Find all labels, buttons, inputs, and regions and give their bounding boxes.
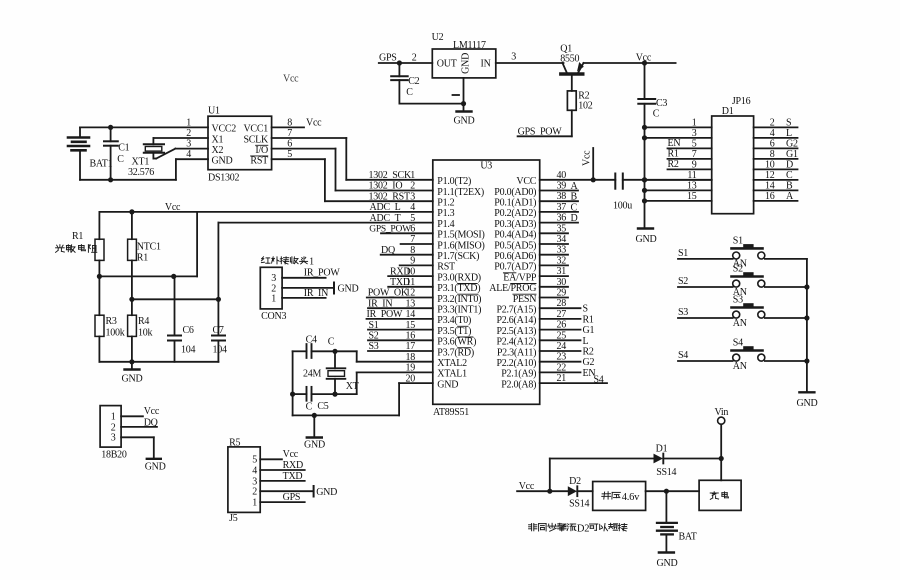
svg-text:VCC: VCC <box>516 176 536 187</box>
svg-text:C: C <box>571 202 578 213</box>
svg-text:P0.1(AD1): P0.1(AD1) <box>494 198 536 209</box>
svg-text:Vcc: Vcc <box>582 150 593 166</box>
svg-text:S3: S3 <box>369 341 379 352</box>
svg-text:C2: C2 <box>408 76 419 87</box>
svg-text:D: D <box>571 213 578 224</box>
svg-text:10: 10 <box>765 159 775 170</box>
svg-text:6: 6 <box>770 138 775 149</box>
svg-text:4: 4 <box>770 128 775 139</box>
svg-text:GND: GND <box>304 440 325 451</box>
svg-text:P2.7(A15): P2.7(A15) <box>496 305 536 316</box>
svg-text:TXD: TXD <box>283 471 303 482</box>
svg-text:SCLK: SCLK <box>243 134 269 145</box>
svg-text:GND: GND <box>145 462 166 473</box>
svg-text:ALE/PROG: ALE/PROG <box>489 283 536 294</box>
svg-text:1: 1 <box>111 412 116 423</box>
svg-text:1: 1 <box>186 117 191 128</box>
svg-text:U2: U2 <box>432 32 444 43</box>
svg-text:LM1117: LM1117 <box>453 40 486 51</box>
svg-text:P1.5(MOSI): P1.5(MOSI) <box>437 230 484 241</box>
svg-text:X1: X1 <box>212 134 224 145</box>
svg-text:3: 3 <box>692 128 697 139</box>
svg-text:S1: S1 <box>678 248 688 259</box>
svg-text:8: 8 <box>770 149 775 160</box>
svg-text:P1.3: P1.3 <box>437 208 454 219</box>
svg-text:R1: R1 <box>583 314 594 325</box>
svg-text:3: 3 <box>186 139 191 150</box>
svg-text:R1: R1 <box>668 149 679 160</box>
svg-text:1: 1 <box>692 117 697 128</box>
svg-text:P2.4(A12): P2.4(A12) <box>496 337 536 348</box>
svg-text:4: 4 <box>186 149 191 160</box>
svg-text:P3.4(T0): P3.4(T0) <box>437 315 471 326</box>
svg-text:D2: D2 <box>577 524 589 535</box>
svg-text:P2.6(A14): P2.6(A14) <box>496 315 536 326</box>
svg-text:P2.1(A9): P2.1(A9) <box>501 369 536 380</box>
svg-text:B: B <box>571 192 578 203</box>
svg-text:RST: RST <box>437 262 455 273</box>
svg-text:P3.3(INT1): P3.3(INT1) <box>437 305 481 316</box>
svg-text:BAT: BAT <box>679 532 697 543</box>
svg-text:5: 5 <box>692 138 697 149</box>
svg-text:15: 15 <box>687 191 697 202</box>
svg-text:2: 2 <box>111 422 116 433</box>
svg-text:GPS: GPS <box>283 492 301 503</box>
svg-text:Vcc: Vcc <box>165 202 181 213</box>
svg-text:XTAL2: XTAL2 <box>437 358 467 369</box>
svg-text:JP16: JP16 <box>732 96 751 107</box>
svg-text:NTC1: NTC1 <box>137 242 161 253</box>
svg-text:GND: GND <box>122 374 143 385</box>
svg-text:R3: R3 <box>106 316 117 327</box>
svg-text:3: 3 <box>111 433 116 444</box>
svg-text:P0.0(AD0): P0.0(AD0) <box>494 187 536 198</box>
svg-text:100u: 100u <box>613 201 632 212</box>
svg-text:S3: S3 <box>678 307 688 318</box>
svg-text:AT89S51: AT89S51 <box>433 407 469 418</box>
svg-text:B: B <box>786 180 793 191</box>
svg-text:P2.2(A10): P2.2(A10) <box>496 358 536 369</box>
svg-text:S: S <box>786 117 791 128</box>
svg-text:POW_OK: POW_OK <box>368 288 409 299</box>
svg-text:16: 16 <box>765 191 775 202</box>
svg-text:C: C <box>786 170 793 181</box>
svg-text:U3: U3 <box>480 161 492 172</box>
svg-text:C: C <box>328 337 335 348</box>
svg-text:P0.4(AD4): P0.4(AD4) <box>494 230 536 241</box>
svg-text:DS1302: DS1302 <box>208 173 240 184</box>
svg-text:5: 5 <box>252 455 257 466</box>
svg-text:P3.7(RD): P3.7(RD) <box>437 347 474 358</box>
svg-text:24M: 24M <box>303 369 322 380</box>
svg-text:GND: GND <box>797 398 818 409</box>
svg-text:C: C <box>306 402 313 413</box>
svg-text:Vcc: Vcc <box>283 74 299 85</box>
svg-text:AN: AN <box>733 318 747 329</box>
svg-text:P2.5(A13): P2.5(A13) <box>496 326 536 337</box>
svg-text:GND: GND <box>338 284 359 295</box>
svg-text:D1: D1 <box>722 106 734 117</box>
svg-text:RST: RST <box>250 156 268 167</box>
svg-text:G1: G1 <box>583 325 595 336</box>
svg-text:102: 102 <box>578 100 593 111</box>
svg-text:D2: D2 <box>569 476 581 487</box>
svg-text:S4: S4 <box>733 338 743 349</box>
svg-text:32.576: 32.576 <box>128 167 154 178</box>
svg-text:C4: C4 <box>306 335 317 346</box>
svg-text:100k: 100k <box>106 328 125 339</box>
svg-text:P2.0(A8): P2.0(A8) <box>501 379 536 390</box>
svg-text:X2: X2 <box>212 145 224 156</box>
svg-text:S1: S1 <box>733 236 743 247</box>
svg-text:C3: C3 <box>656 98 667 109</box>
svg-text:P1.1(T2EX): P1.1(T2EX) <box>437 187 484 198</box>
svg-text:Vcc: Vcc <box>283 449 299 460</box>
svg-text:18B20: 18B20 <box>101 450 127 461</box>
svg-text:104: 104 <box>181 345 196 356</box>
svg-text:XTAL1: XTAL1 <box>437 369 467 380</box>
svg-text:RXD: RXD <box>390 266 410 277</box>
svg-text:P3.1(TXD): P3.1(TXD) <box>437 283 480 294</box>
svg-text:Vcc: Vcc <box>636 53 652 64</box>
svg-text:IN: IN <box>481 59 491 70</box>
svg-text:GND: GND <box>657 558 678 569</box>
svg-text:S: S <box>583 304 588 315</box>
svg-text:P1.2: P1.2 <box>437 198 454 209</box>
svg-text:G2: G2 <box>583 357 595 368</box>
svg-text:L: L <box>786 128 792 139</box>
svg-text:C: C <box>117 154 124 165</box>
svg-text:R4: R4 <box>138 316 149 327</box>
svg-text:S1: S1 <box>369 320 379 331</box>
svg-text:1: 1 <box>271 293 276 304</box>
svg-text:P0.5(AD5): P0.5(AD5) <box>494 240 536 251</box>
svg-text:14: 14 <box>765 180 775 191</box>
svg-text:J5: J5 <box>229 513 238 524</box>
svg-text:P3.0(RXD): P3.0(RXD) <box>437 272 481 283</box>
svg-text:R2: R2 <box>668 159 679 170</box>
svg-text:S2: S2 <box>678 276 688 287</box>
svg-text:R1: R1 <box>72 231 83 242</box>
svg-text:GND: GND <box>454 116 475 127</box>
svg-text:I/O: I/O <box>255 145 268 156</box>
svg-text:RXD: RXD <box>283 460 303 471</box>
svg-text:S4: S4 <box>678 350 688 361</box>
svg-text:XT1: XT1 <box>132 157 150 168</box>
svg-text:PESN: PESN <box>513 294 536 305</box>
svg-text:TXD: TXD <box>390 277 410 288</box>
svg-text:P2.3(A11): P2.3(A11) <box>497 347 536 358</box>
svg-text:P0.7(AD7): P0.7(AD7) <box>494 262 536 273</box>
svg-text:P0.3(AD3): P0.3(AD3) <box>494 219 536 230</box>
svg-text:C5: C5 <box>317 401 328 412</box>
svg-text:CON3: CON3 <box>261 311 286 322</box>
svg-text:P3.2(INT0): P3.2(INT0) <box>437 294 481 305</box>
svg-text:P0.6(AD6): P0.6(AD6) <box>494 251 536 262</box>
svg-text:1302_IO: 1302_IO <box>369 181 403 192</box>
svg-text:GND: GND <box>636 234 657 245</box>
svg-text:P1.6(MISO): P1.6(MISO) <box>437 240 484 251</box>
svg-text:1302_RST: 1302_RST <box>369 191 410 202</box>
svg-text:D: D <box>786 159 793 170</box>
svg-text:GND: GND <box>461 53 472 74</box>
svg-text:BAT1: BAT1 <box>90 159 113 170</box>
svg-text:C7: C7 <box>213 325 224 336</box>
svg-text:2: 2 <box>186 128 191 139</box>
svg-text:P0.2(AD2): P0.2(AD2) <box>494 208 536 219</box>
svg-text:R1: R1 <box>137 253 148 264</box>
svg-text:1302_SCK: 1302_SCK <box>369 170 412 181</box>
svg-text:GND: GND <box>212 156 233 167</box>
svg-text:A: A <box>786 191 794 202</box>
svg-text:P3.5(T1): P3.5(T1) <box>437 326 471 337</box>
svg-text:P3.6(WR): P3.6(WR) <box>437 337 476 348</box>
svg-text:1: 1 <box>309 257 314 268</box>
svg-text:10k: 10k <box>138 328 153 339</box>
svg-text:GND: GND <box>437 379 458 390</box>
svg-text:S3: S3 <box>733 295 743 306</box>
svg-text:GPS_POW: GPS_POW <box>518 126 563 137</box>
svg-text:Vcc: Vcc <box>144 406 160 417</box>
svg-text:G2: G2 <box>786 138 798 149</box>
svg-text:P1.7(SCK): P1.7(SCK) <box>437 251 479 262</box>
svg-text:3: 3 <box>511 52 516 63</box>
svg-text:S2: S2 <box>733 264 743 275</box>
svg-text:2: 2 <box>770 117 775 128</box>
svg-text:SS14: SS14 <box>656 467 676 478</box>
svg-text:S4: S4 <box>594 374 604 385</box>
svg-text:OUT: OUT <box>437 59 457 70</box>
svg-text:C: C <box>653 109 660 120</box>
svg-text:VCC2: VCC2 <box>212 124 237 135</box>
svg-text:2: 2 <box>252 487 257 498</box>
svg-text:1: 1 <box>252 498 257 509</box>
svg-text:C1: C1 <box>118 143 129 154</box>
svg-text:4: 4 <box>252 465 257 476</box>
svg-text:DQ: DQ <box>144 418 159 429</box>
svg-text:GND: GND <box>316 487 337 498</box>
svg-text:C6: C6 <box>183 325 194 336</box>
svg-text:11: 11 <box>687 170 696 181</box>
svg-text:VCC1: VCC1 <box>243 124 268 135</box>
svg-text:S2: S2 <box>369 331 379 342</box>
svg-text:12: 12 <box>765 170 775 181</box>
svg-text:EN: EN <box>668 138 681 149</box>
svg-text:13: 13 <box>687 180 697 191</box>
svg-text:L: L <box>583 336 589 347</box>
svg-text:Vcc: Vcc <box>306 118 322 129</box>
svg-text:C: C <box>406 87 413 98</box>
svg-text:IR_IN: IR_IN <box>368 298 392 309</box>
svg-text:A: A <box>571 181 579 192</box>
svg-text:SS14: SS14 <box>569 499 589 510</box>
svg-text:7: 7 <box>692 149 697 160</box>
svg-text:IR_IN: IR_IN <box>304 288 328 299</box>
svg-text:104: 104 <box>213 345 228 356</box>
svg-text:U1: U1 <box>208 106 220 117</box>
svg-text:4.6v: 4.6v <box>622 492 640 503</box>
svg-text:GPS: GPS <box>379 53 397 64</box>
svg-text:IR_POW: IR_POW <box>304 268 341 279</box>
svg-text:2: 2 <box>412 53 417 64</box>
svg-text:AN: AN <box>733 361 747 372</box>
svg-text:EA/VPP: EA/VPP <box>503 272 537 283</box>
svg-text:R2: R2 <box>583 347 594 358</box>
svg-text:P1.4: P1.4 <box>437 219 454 230</box>
svg-text:G1: G1 <box>786 149 798 160</box>
svg-text:P1.0(T2): P1.0(T2) <box>437 176 471 187</box>
svg-text:9: 9 <box>692 159 697 170</box>
svg-text:DQ: DQ <box>381 245 396 256</box>
svg-text:D1: D1 <box>656 444 668 455</box>
svg-text:IR_POW: IR_POW <box>367 309 404 320</box>
